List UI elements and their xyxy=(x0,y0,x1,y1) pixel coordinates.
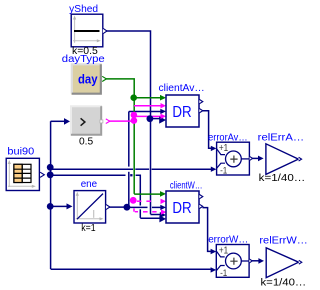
greThr block (>) xyxy=(70,106,102,136)
wire bui90.y to errorAv.u2 (y=169.2) xyxy=(52,168,212,170)
yShed output port xyxy=(103,28,107,34)
bui90 table block xyxy=(6,158,39,190)
clientAv DR block xyxy=(166,95,199,127)
wire clientW.PPre to errorW.u1 xyxy=(203,208,212,252)
svg-text:bui90: bui90 xyxy=(7,147,34,158)
svg-text:DR: DR xyxy=(172,200,191,217)
svg-text:k=1/40…: k=1/40… xyxy=(261,277,307,288)
bui90 output port xyxy=(40,172,44,177)
magenta arrowheads xyxy=(161,103,167,215)
green junction dot xyxy=(130,94,137,101)
greThr output square port xyxy=(100,120,103,123)
svg-text:clientW…: clientW… xyxy=(170,181,203,192)
ene output port xyxy=(106,204,110,209)
constant yShed xyxy=(71,14,103,47)
svg-text:0.5: 0.5 xyxy=(79,137,94,148)
arrow into relErrA.u xyxy=(258,156,264,162)
arrow into greThr.u xyxy=(64,118,70,125)
svg-text:relErrW…: relErrW… xyxy=(259,235,307,246)
svg-text:dayType: dayType xyxy=(62,54,105,65)
arrow into errorAv.u2 xyxy=(211,167,217,172)
clientW DR block xyxy=(166,191,199,223)
svg-text:-1: -1 xyxy=(220,268,227,278)
wire errorAv.y to relErrA.u xyxy=(252,157,260,159)
wire bui90.y to clientW lower input via riser x=140.3 xyxy=(52,175,160,218)
arrow into relErrW.u xyxy=(258,258,264,264)
errorW add block xyxy=(216,244,249,278)
green wire dayType.y xyxy=(106,79,161,194)
svg-text:k=1: k=1 xyxy=(81,223,96,234)
arrow into clientW in5 xyxy=(160,212,166,218)
wire yShed.y to clients (vertical bus x=150.5) xyxy=(107,31,162,215)
clientW output ports xyxy=(199,194,203,198)
blue junction dots xyxy=(47,115,154,210)
arrow into ene.u xyxy=(67,203,73,209)
arrow into errorW.u2 xyxy=(211,267,217,272)
svg-text:errorW…: errorW… xyxy=(208,235,248,246)
svg-text:clientAv…: clientAv… xyxy=(159,83,205,94)
relErrA gain triangle xyxy=(266,144,299,175)
ene integrator block xyxy=(74,191,106,223)
arrow into errorAv.u1 xyxy=(211,146,217,151)
arrow into clientAv.yShed (large) xyxy=(159,116,166,123)
dayType block xyxy=(71,64,102,95)
svg-text:day: day xyxy=(78,71,98,86)
arrow into clientW.PCon xyxy=(160,205,166,210)
errorAv output port xyxy=(250,156,253,160)
errorAv add block xyxy=(217,142,250,176)
svg-text:k=1/40…: k=1/40… xyxy=(259,173,306,184)
relErrW gain triangle xyxy=(266,248,298,278)
relErrW output port xyxy=(299,260,302,264)
svg-text:ene: ene xyxy=(81,179,98,190)
arrow into errorW.u1 xyxy=(211,249,217,254)
svg-text:relErrA…: relErrA… xyxy=(258,133,305,144)
svg-text:errorAv…: errorAv… xyxy=(208,133,248,144)
wire errorW.y to relErrW.u xyxy=(252,260,260,262)
relErrA output port xyxy=(299,157,302,161)
svg-text:-1: -1 xyxy=(220,166,227,176)
errorW output port xyxy=(249,259,252,263)
svg-text:yShed: yShed xyxy=(69,4,98,15)
svg-text:DR: DR xyxy=(172,104,191,121)
arrow into clientAv.PCon xyxy=(160,109,166,114)
input arrowheads (filled) xyxy=(64,109,264,273)
crossing dash remnant xyxy=(130,174,132,176)
wire clientAv.PPre to errorAv.u1 xyxy=(203,111,213,149)
arrow into clientW in6 (large) xyxy=(159,215,166,222)
wire ene.y riser x=128.8 to clientAv.PCon xyxy=(109,112,162,208)
wire bui90.y main riser x=50.6 xyxy=(51,121,213,269)
clientAv output ports xyxy=(199,99,203,103)
magenta solid wires from greThr.y xyxy=(109,106,161,121)
svg-text:+1: +1 xyxy=(219,142,228,154)
green arrowheads xyxy=(160,95,166,197)
svg-text:+1: +1 xyxy=(219,244,228,256)
greThr output port arrow xyxy=(106,119,110,124)
magenta dashed vertical (shed bus) x=134 xyxy=(134,201,157,212)
magenta junction dots xyxy=(131,112,138,119)
dayType output port xyxy=(102,76,106,81)
wire bui90.y to ene.u xyxy=(52,205,67,207)
